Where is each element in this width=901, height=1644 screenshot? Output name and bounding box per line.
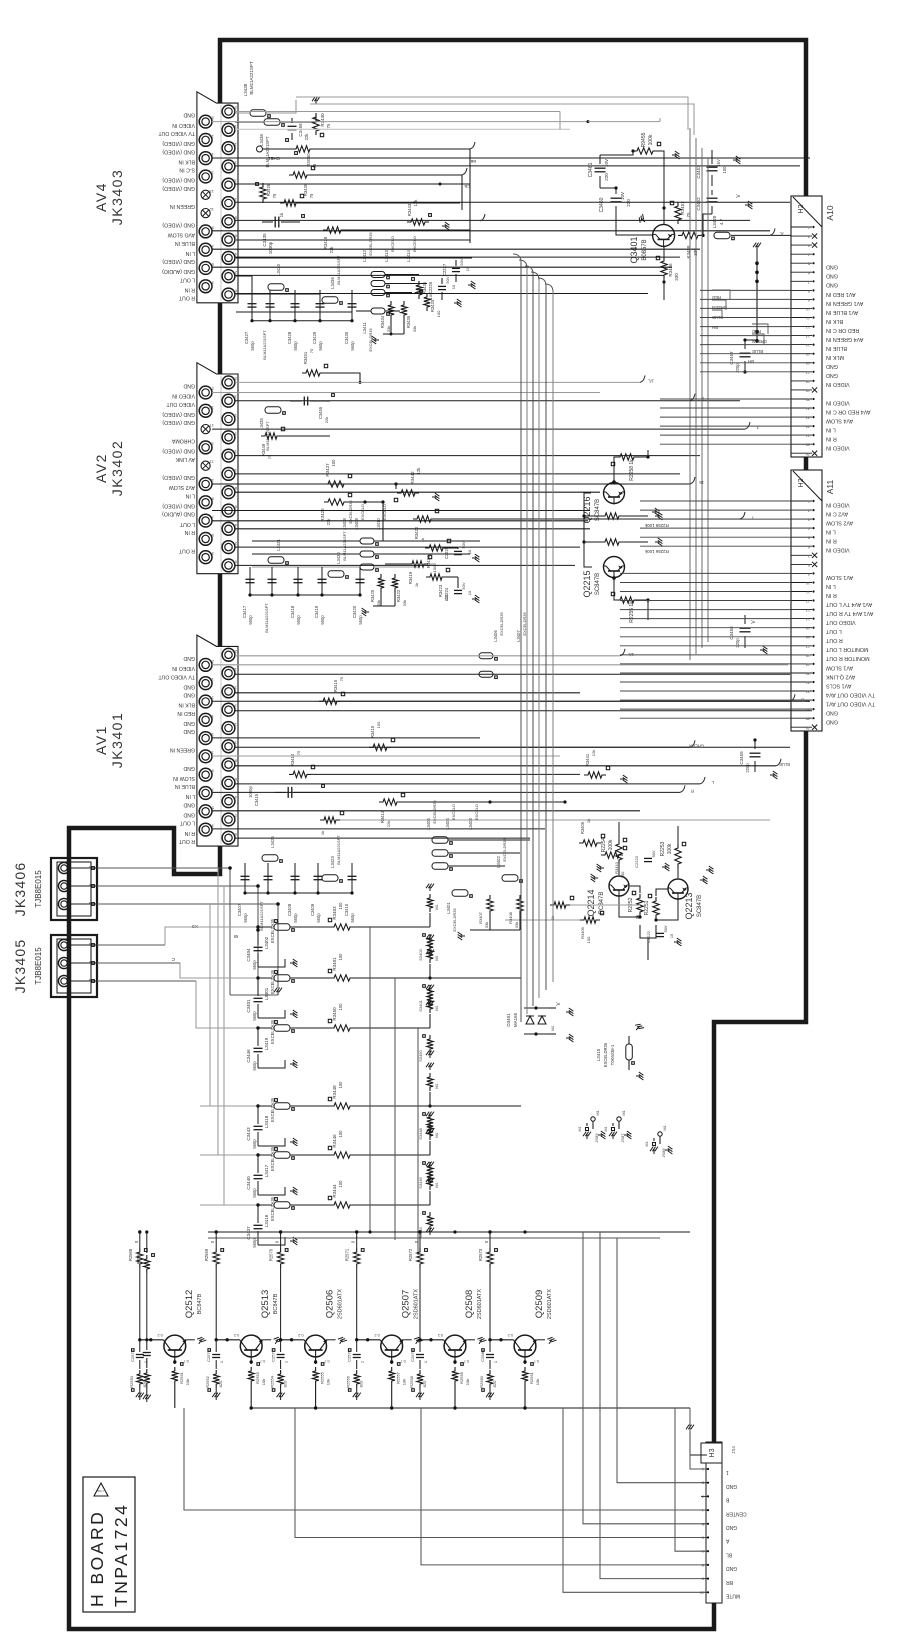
- svg-text:GND: GND: [826, 273, 838, 279]
- svg-text:GREEN IN: GREEN IN: [170, 747, 195, 753]
- svg-text:R IN: R IN: [826, 592, 837, 598]
- wire Q2506 base: [281, 1339, 305, 1341]
- JK3402 pin 5: [199, 533, 212, 546]
- capacitor C3453: [707, 166, 718, 168]
- svg-text:16: 16: [232, 685, 237, 690]
- wire bend: [513, 254, 521, 262]
- svg-text:13: 13: [209, 460, 214, 465]
- connector JK3405 body: [51, 935, 97, 997]
- svg-text:M1: M1: [551, 1025, 555, 1030]
- JK3403 pin 8: [222, 215, 235, 228]
- svg-text:L IN: L IN: [185, 492, 195, 498]
- svg-text:5: 5: [808, 536, 810, 540]
- node 1/L hook: [640, 375, 645, 382]
- svg-text:AV1 AV4 TV L OUT: AV1 AV4 TV L OUT: [825, 601, 872, 607]
- svg-text:BLUE: BLUE: [752, 349, 763, 354]
- svg-text:R3401: R3401: [332, 957, 337, 971]
- inductor L3414: [371, 290, 385, 296]
- ferrite L3430: [328, 571, 344, 578]
- wire av2 o1: [235, 381, 640, 383]
- wire a11 pin16b: [620, 636, 791, 638]
- svg-text:JS88: JS88: [661, 1148, 666, 1158]
- wire av1 red: [235, 710, 812, 712]
- svg-text:L3411: L3411: [362, 322, 367, 334]
- wire a10 pin11: [700, 317, 791, 319]
- JK3403 pin 13: [201, 190, 210, 199]
- svg-text:10: 10: [232, 197, 237, 202]
- wire q2512 to H3: [184, 1408, 706, 1510]
- svg-text:C3461: C3461: [588, 162, 594, 177]
- JK3402 pin 4: [222, 522, 235, 535]
- svg-text:T0K6038-1: T0K6038-1: [610, 1044, 615, 1065]
- svg-text:R OUT: R OUT: [178, 295, 195, 301]
- svg-text:GND: GND: [826, 264, 838, 270]
- svg-text:150: 150: [376, 721, 381, 728]
- node 2 hook: [690, 394, 695, 401]
- svg-text:12: 12: [232, 179, 237, 184]
- svg-text:R3403: R3403: [332, 906, 337, 920]
- svg-text:L3416: L3416: [264, 1214, 269, 1227]
- svg-text:VIDEO IN: VIDEO IN: [172, 393, 195, 399]
- JK3403 pin 4: [222, 252, 235, 265]
- svg-text:15: 15: [209, 714, 214, 719]
- svg-text:S3448: S3448: [418, 1127, 423, 1139]
- resistor R2553 10k: [250, 1357, 252, 1364]
- svg-text:C3455: C3455: [318, 406, 323, 419]
- svg-text:25: 25: [806, 717, 810, 721]
- svg-text:4: 4: [808, 527, 810, 531]
- svg-text:GND (VIDEO): GND (VIDEO): [162, 148, 195, 154]
- svg-text:19: 19: [209, 134, 214, 139]
- svg-text:18: 18: [232, 667, 237, 672]
- wire jk feed4: [200, 904, 210, 1106]
- svg-text:EXCELD: EXCELD: [382, 504, 387, 520]
- svg-text:L IN: L IN: [826, 529, 836, 535]
- svg-text:100k: 100k: [667, 843, 673, 854]
- filter cell C3446 L3419 R3450: [200, 1027, 258, 1029]
- JK3401 pin 9: [199, 768, 212, 781]
- node JL hook: [770, 228, 775, 235]
- wire a10 pin14: [700, 344, 791, 346]
- svg-text:C3401: C3401: [246, 999, 251, 1013]
- resistor R3424 100: [425, 545, 447, 551]
- wire JK3406 net: [97, 867, 230, 869]
- svg-text:L3401: L3401: [446, 902, 451, 914]
- svg-text:M1: M1: [645, 1142, 649, 1147]
- svg-text:C3443: C3443: [246, 1127, 251, 1141]
- svg-text:R3415: R3415: [370, 725, 375, 738]
- resistor R3412 1k: [320, 817, 340, 823]
- JK3403 pin 20: [222, 105, 235, 118]
- svg-text:R3442: R3442: [410, 471, 415, 485]
- wire av1 lin: [235, 783, 700, 785]
- wire Q2216 top dot: [612, 480, 616, 484]
- svg-text:15: 15: [806, 352, 810, 356]
- svg-text:L3402: L3402: [264, 936, 269, 949]
- svg-text:R3409: R3409: [580, 926, 585, 939]
- wire a10 pin16: [700, 362, 791, 364]
- wire a11 pin18b: [620, 654, 791, 656]
- svg-text:R3457: R3457: [680, 201, 685, 215]
- resistor R2253 100k: [675, 844, 681, 868]
- svg-text:R3406: R3406: [580, 821, 585, 834]
- wire L3438 net: [235, 112, 250, 114]
- svg-text:22: 22: [806, 690, 810, 694]
- svg-text:GREEN: GREEN: [712, 305, 727, 310]
- svg-text:GND: GND: [826, 372, 838, 378]
- svg-text:Q2215: Q2215: [582, 570, 592, 597]
- svg-text:75: 75: [339, 676, 344, 681]
- svg-text:100: 100: [432, 565, 437, 572]
- svg-text:0.7: 0.7: [534, 1359, 539, 1363]
- svg-text:EXCELDR35: EXCELDR35: [368, 232, 373, 256]
- svg-text:L3433: L3433: [276, 264, 281, 276]
- filter cell C3443 L3418 R3448: [200, 1105, 258, 1107]
- svg-text:VIDEO IN: VIDEO IN: [172, 122, 195, 128]
- wire r175: [311, 174, 462, 176]
- svg-text:C3404: C3404: [246, 948, 251, 962]
- svg-text:C3408: C3408: [287, 903, 292, 916]
- svg-text:R2258 1k: R2258 1k: [629, 459, 635, 481]
- svg-text:VIDEO IN: VIDEO IN: [826, 445, 850, 451]
- svg-text:AV2: AV2: [93, 453, 109, 483]
- capacitor C2580 1: [489, 1340, 491, 1352]
- svg-text:100: 100: [586, 936, 591, 943]
- svg-text:R2553: R2553: [255, 1371, 260, 1384]
- capacitor C2223: [644, 857, 652, 859]
- svg-text:75: 75: [309, 193, 314, 198]
- svg-text:Q2213: Q2213: [684, 892, 694, 919]
- JK3402 pin 15: [199, 441, 212, 454]
- svg-text:JS89: JS89: [594, 1133, 599, 1143]
- svg-text:0.7: 0.7: [464, 1359, 469, 1363]
- svg-text:CHROMA: CHROMA: [171, 438, 195, 444]
- wire Q2513 base: [216, 1339, 240, 1341]
- capacitor C3457 220p: [740, 352, 751, 354]
- svg-text:10k: 10k: [261, 1379, 266, 1385]
- svg-text:10: 10: [451, 284, 456, 289]
- JK3401 pin 6: [222, 777, 235, 790]
- svg-text:GND: GND: [826, 282, 838, 288]
- svg-text:L IN: L IN: [185, 793, 195, 799]
- svg-text:14: 14: [806, 343, 810, 347]
- svg-text:L3404: L3404: [445, 818, 450, 830]
- svg-text:100: 100: [620, 871, 625, 878]
- JK3402 pin 6: [222, 504, 235, 517]
- svg-text:13: 13: [806, 608, 810, 612]
- svg-text:GND: GND: [183, 812, 195, 818]
- svg-text:R2571: R2571: [345, 1248, 350, 1261]
- svg-text:GND (VIDEO): GND (VIDEO): [162, 258, 195, 264]
- JK3406 pin 1: [58, 862, 69, 873]
- svg-text:GND: GND: [726, 1565, 738, 1571]
- wire top gray2: [310, 104, 694, 135]
- resistor R2559 10k: [454, 1357, 456, 1364]
- wire vbundle mid 4: [545, 286, 547, 990]
- wire Q3401 c: [663, 168, 665, 224]
- resistor R2560 820: [487, 1370, 493, 1388]
- svg-text:GND: GND: [183, 692, 195, 698]
- ferrite L3438a: [250, 110, 266, 117]
- resistor R3409 100: [580, 917, 600, 923]
- svg-text:10k: 10k: [402, 1379, 407, 1385]
- svg-text:1k: 1k: [586, 819, 591, 823]
- svg-text:AV4 SLOW: AV4 SLOW: [825, 417, 853, 423]
- capacitor C2579 1: [419, 1340, 421, 1352]
- JK3402 pin 8: [222, 486, 235, 499]
- ground Q2507: [403, 1339, 412, 1341]
- svg-text:12k: 12k: [591, 750, 596, 756]
- svg-text:L IN: L IN: [826, 427, 836, 433]
- wire a10 pin23b: [660, 425, 791, 427]
- wire a11 pin5: [640, 536, 791, 538]
- svg-text:BLK IN: BLK IN: [826, 318, 843, 324]
- resistor R2550 820: [137, 1370, 143, 1388]
- svg-text:BLK IN: BLK IN: [178, 702, 195, 708]
- wire a11 pin24b: [620, 708, 791, 710]
- svg-text:R3433: R3433: [430, 299, 435, 312]
- svg-text:R3428: R3428: [266, 183, 271, 196]
- svg-text:16: 16: [232, 413, 237, 418]
- svg-text:MA165: MA165: [513, 1012, 518, 1027]
- wire r503: [348, 501, 383, 503]
- svg-text:EXCELDR35: EXCELDR35: [603, 1042, 608, 1067]
- svg-text:R3450: R3450: [332, 1007, 337, 1021]
- wire to H3 px: [583, 1232, 706, 1524]
- svg-text:50V: 50V: [459, 258, 464, 265]
- svg-text:15: 15: [209, 441, 214, 446]
- resistor R2555 10k: [315, 1357, 317, 1364]
- svg-text:820: 820: [359, 1380, 364, 1387]
- resistor R3414 75: [289, 771, 311, 777]
- svg-text:TV VIDEO OUT AV1: TV VIDEO OUT AV1: [826, 701, 875, 707]
- svg-text:33k: 33k: [484, 922, 489, 928]
- capacitor C2225: [454, 550, 462, 552]
- resistor R3416 75: [319, 698, 341, 704]
- wire q2507 to H3: [563, 1408, 706, 1592]
- svg-text:C3459: C3459: [739, 751, 744, 765]
- JK3402 pin 11: [199, 478, 212, 491]
- svg-text:100: 100: [338, 953, 343, 961]
- svg-text:10: 10: [670, 934, 674, 938]
- svg-text:S3450: S3450: [418, 1049, 423, 1061]
- svg-text:L3438: L3438: [259, 134, 264, 146]
- resistor R2572 0: [419, 1232, 421, 1248]
- svg-text:BLM11A221SPT: BLM11A221SPT: [264, 603, 269, 633]
- inductor L3402: [502, 875, 518, 882]
- JK3402 pin 0: [222, 559, 235, 572]
- resistor R3456 330: [661, 257, 667, 279]
- connector A10 body: [791, 196, 822, 457]
- wire av1 blue: [235, 765, 776, 767]
- svg-text:EXCELDR35: EXCELDR35: [502, 838, 507, 862]
- ferrite L3436: [322, 297, 338, 304]
- svg-text:R3443: R3443: [407, 203, 412, 216]
- wire r825: [340, 819, 770, 821]
- svg-text:560p: 560p: [318, 341, 323, 351]
- wire av2 avlink: [235, 455, 700, 457]
- svg-text:220p: 220p: [745, 763, 750, 773]
- svg-text:16: 16: [806, 635, 810, 639]
- svg-text:33k: 33k: [412, 326, 417, 332]
- resistor R2570 0: [280, 1232, 282, 1248]
- JK3401 pin 12: [222, 722, 235, 735]
- svg-text:GREEN: GREEN: [689, 743, 704, 748]
- JK3401 pin 20: [222, 648, 235, 661]
- wire a11 pin6: [640, 545, 791, 547]
- svg-text:GND: GND: [183, 801, 195, 807]
- svg-text:C3418: C3418: [290, 605, 295, 618]
- svg-text:1000p: 1000p: [268, 241, 273, 254]
- svg-text:560p: 560p: [350, 341, 355, 351]
- svg-text:33k: 33k: [514, 922, 519, 928]
- JK3403 pin 9: [199, 225, 212, 238]
- svg-text:AV4: AV4: [93, 182, 109, 212]
- svg-text:20: 20: [232, 376, 237, 381]
- ground Q2214: [591, 874, 598, 882]
- resistor R2258: [616, 454, 638, 460]
- svg-text:GND: GND: [826, 719, 838, 725]
- svg-text:22k: 22k: [304, 133, 309, 141]
- wire av4 blk3: [235, 183, 470, 185]
- svg-text:EXCELDR35: EXCELDR35: [499, 612, 504, 636]
- svg-text:R3425: R3425: [370, 589, 375, 602]
- svg-text:8: 8: [808, 289, 810, 293]
- svg-text:R IN: R IN: [826, 538, 837, 544]
- resistor R3407 33k: [487, 895, 493, 915]
- wire cell out v1: [369, 927, 371, 1232]
- svg-text:C3407: C3407: [237, 903, 242, 916]
- svg-text:2SD601ATX: 2SD601ATX: [338, 1289, 344, 1319]
- svg-text:11: 11: [806, 316, 810, 320]
- JK3402 pin 2: [222, 541, 235, 554]
- svg-text:R3410: R3410: [614, 861, 619, 874]
- resistor R3413 22k: [379, 799, 401, 805]
- svg-text:L3405: L3405: [426, 818, 431, 830]
- inductor L3409: [360, 551, 374, 557]
- svg-text:M1: M1: [435, 1005, 439, 1010]
- svg-text:2SD601ATX: 2SD601ATX: [547, 1289, 553, 1319]
- svg-text:100: 100: [338, 1180, 343, 1188]
- svg-text:2: 2: [808, 235, 810, 239]
- resistor R3443 12k: [407, 219, 429, 225]
- svg-text:R3444: R3444: [332, 1184, 337, 1198]
- svg-text:Q2214: Q2214: [586, 889, 596, 916]
- svg-text:7: 7: [808, 280, 810, 284]
- svg-text:100: 100: [338, 1130, 343, 1138]
- wire Q2213 c: [677, 868, 679, 878]
- wire Q2215 em: [614, 578, 616, 600]
- svg-text:R IN: R IN: [826, 436, 837, 442]
- svg-text:AV4 GREEN IN: AV4 GREEN IN: [826, 336, 863, 342]
- svg-text:21: 21: [806, 407, 810, 411]
- svg-text:R2256 100k: R2256 100k: [644, 549, 668, 554]
- wire av2 o2: [235, 400, 740, 402]
- wire a11 pin3: [640, 518, 791, 520]
- wire av1 o2: [235, 673, 790, 675]
- svg-text:JK3401: JK3401: [109, 712, 125, 768]
- wire a10 pin13: [700, 335, 791, 337]
- svg-text:18: 18: [232, 395, 237, 400]
- svg-text:220p: 220p: [735, 363, 740, 373]
- wire a11 pin25b: [620, 717, 791, 719]
- wire a10 pin8: [700, 289, 791, 291]
- resistor R3441 12k: [584, 772, 606, 778]
- svg-text:L OUT: L OUT: [825, 628, 841, 634]
- svg-text:GND: GND: [183, 728, 195, 734]
- svg-text:R2569: R2569: [204, 1248, 209, 1261]
- node GREEN hook: [690, 740, 695, 747]
- wire vbundle right 1: [695, 138, 697, 654]
- svg-text:GND: GND: [183, 112, 195, 118]
- capacitor C2222: [656, 932, 664, 934]
- svg-text:AV2 C IN: AV2 C IN: [826, 511, 848, 517]
- wire a11 pin20b: [620, 672, 791, 674]
- JK3401 pin 14: [222, 703, 235, 716]
- svg-text:GND: GND: [183, 720, 195, 726]
- wire a11 pin13b: [620, 609, 791, 611]
- JK3403 pin 16: [222, 142, 235, 155]
- svg-text:13: 13: [806, 334, 810, 338]
- svg-text:1: 1: [808, 500, 810, 504]
- svg-text:L3419: L3419: [264, 1037, 269, 1050]
- svg-text:GND (VIDEO): GND (VIDEO): [162, 503, 195, 509]
- resistor R3425 33k: [378, 574, 384, 592]
- wire r149: [314, 148, 470, 150]
- wire r478: [348, 483, 690, 485]
- wire Q3401 em: [663, 247, 665, 257]
- svg-text:M1: M1: [435, 1132, 439, 1137]
- svg-text:820: 820: [492, 1380, 497, 1387]
- svg-text:EXCELDR35: EXCELDR35: [522, 612, 527, 636]
- svg-text:L3406: L3406: [493, 630, 498, 642]
- svg-text:75: 75: [296, 750, 301, 755]
- filter cell C3437 L3416 R3444: [200, 1204, 258, 1206]
- svg-text:GND (VIDEO): GND (VIDEO): [162, 185, 195, 191]
- svg-text:L3436: L3436: [330, 277, 335, 289]
- svg-text:R2554: R2554: [270, 1375, 275, 1388]
- jumper JS87: [617, 1117, 621, 1121]
- JK3403 pin 3: [199, 280, 212, 293]
- JK3401 pin 17: [199, 695, 212, 708]
- wire av4 blk2: [235, 165, 800, 167]
- resistor R3419 1k: [408, 561, 428, 567]
- node 1/L hook: [620, 649, 625, 656]
- svg-text:75: 75: [309, 348, 314, 353]
- wire cell out v3: [417, 1028, 419, 1255]
- wire a10 pin25b: [660, 443, 791, 445]
- JK3403 pin 10: [222, 197, 235, 210]
- resistor R3429: [280, 200, 300, 206]
- wire av4 out last: [235, 293, 648, 295]
- svg-text:17: 17: [806, 644, 810, 648]
- svg-text:C3446: C3446: [246, 1049, 251, 1063]
- wire a11 pin4: [640, 527, 791, 529]
- svg-text:0.2: 0.2: [508, 1333, 513, 1337]
- svg-text:3: 3: [702, 1494, 704, 1498]
- wire q2508 to H3: [675, 1408, 706, 1551]
- svg-text:R2551: R2551: [179, 1371, 184, 1384]
- svg-text:GND (AUDIO): GND (AUDIO): [162, 511, 195, 517]
- svg-text:R2550: R2550: [129, 1375, 134, 1388]
- JK3402 pin 21: [199, 386, 212, 399]
- svg-text:R3413: R3413: [380, 810, 385, 823]
- resistor R2259 100k: [601, 513, 623, 519]
- resistor R2557 10k: [391, 1357, 393, 1364]
- JK3401 pin 8: [222, 758, 235, 771]
- wire Q2507 base: [357, 1339, 381, 1341]
- svg-text:10: 10: [232, 740, 237, 745]
